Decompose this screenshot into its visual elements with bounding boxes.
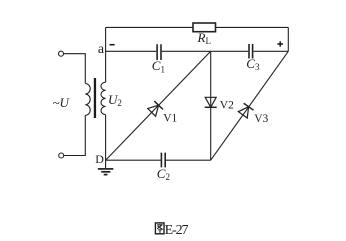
wire diode V3 branch — [211, 51, 289, 160]
polarity minus — [110, 44, 115, 46]
wire diode V1 branch — [106, 51, 211, 160]
terminal input bottom — [59, 153, 64, 158]
wire bottom rail right — [166, 159, 211, 161]
diode V1 — [147, 101, 163, 117]
svg-text:~U: ~U — [53, 95, 71, 110]
wire right column — [287, 27, 289, 51]
svg-text:C1: C1 — [152, 58, 165, 74]
transformer core — [94, 78, 96, 118]
resistor RL — [193, 23, 216, 32]
transformer secondary winding — [101, 82, 106, 114]
diode V3 — [238, 103, 254, 118]
wire diode V2 branch — [210, 51, 212, 160]
svg-text:C3: C3 — [246, 56, 260, 72]
wire top rail — [106, 26, 289, 28]
svg-text:a: a — [98, 42, 105, 57]
svg-text:V3: V3 — [254, 113, 268, 125]
capacitor C1 — [157, 44, 161, 60]
transformer primary winding — [85, 84, 90, 116]
wire left column (a node column) — [105, 27, 107, 160]
capacitor C3 — [249, 44, 253, 59]
wire row a middle — [162, 50, 248, 52]
wire row a left — [106, 50, 157, 52]
wire primary top — [64, 54, 86, 84]
terminal input top — [59, 51, 64, 56]
wire primary bottom — [64, 115, 85, 155]
svg-text:U2: U2 — [108, 92, 122, 108]
polarity plus — [277, 41, 283, 47]
svg-text:V1: V1 — [163, 113, 177, 125]
diode V2 — [205, 97, 217, 107]
capacitor C2 — [161, 153, 165, 168]
wire row a right — [253, 50, 288, 52]
svg-text:V2: V2 — [220, 99, 234, 111]
ground — [98, 160, 113, 174]
svg-text:E-27: E-27 — [165, 223, 189, 238]
svg-text:C2: C2 — [157, 166, 170, 182]
svg-text:D: D — [95, 152, 104, 166]
caption character tu (figure) — [155, 223, 164, 234]
wire bottom rail left — [106, 159, 161, 161]
